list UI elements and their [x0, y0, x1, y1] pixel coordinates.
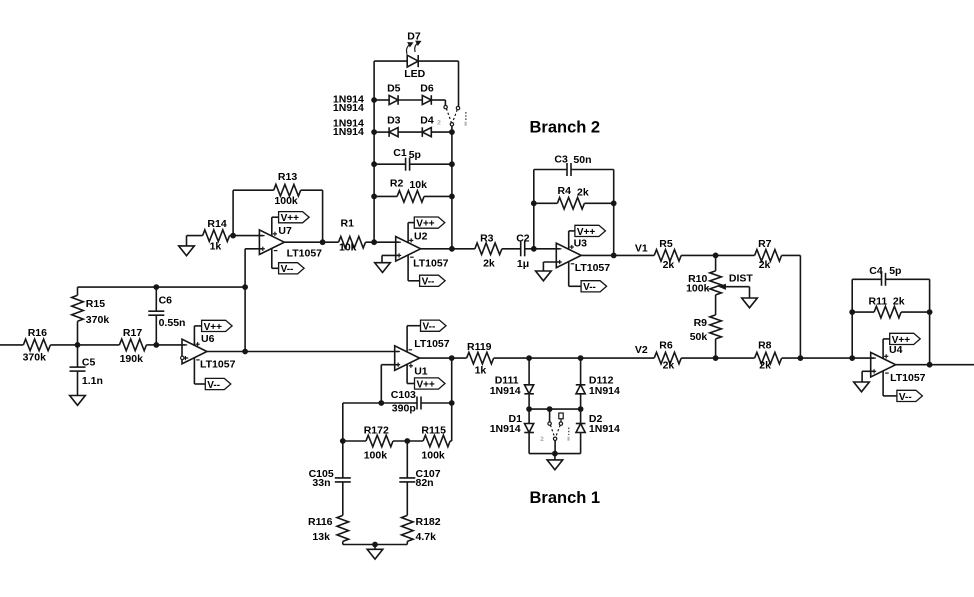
svg-text:2k: 2k — [663, 259, 675, 271]
wire U3 feedback right rail — [613, 170, 615, 256]
svg-text:R2: R2 — [390, 177, 404, 189]
svg-text:U2: U2 — [414, 231, 428, 243]
svg-text:82n: 82n — [416, 477, 434, 489]
ground at R14 — [179, 236, 203, 256]
svg-text:1N914: 1N914 — [490, 385, 521, 397]
wire R119 to V2 row / node V2 — [494, 344, 655, 358]
node R13/output — [320, 240, 325, 245]
wire U1 output — [420, 357, 467, 359]
svg-text:V++: V++ — [417, 379, 436, 390]
svg-text:R9: R9 — [694, 317, 708, 329]
resistor R172 — [343, 425, 393, 462]
svg-text:R7: R7 — [758, 238, 772, 250]
power pin V++ of U1 — [407, 364, 414, 383]
svg-text:U7: U7 — [278, 225, 292, 237]
ground of branch1 — [547, 454, 563, 470]
flag V++ U3 — [575, 225, 606, 238]
svg-text:D4: D4 — [420, 115, 434, 127]
power pin V-- of U2 — [408, 255, 420, 281]
wire R13 feedback right — [301, 190, 323, 242]
wire stack left rail — [373, 61, 375, 242]
svg-text:U3: U3 — [574, 238, 588, 250]
power pin V++ of U4 — [883, 339, 890, 359]
power pin V++ of U7 — [272, 217, 279, 236]
wire filter bottom row — [343, 544, 408, 546]
op-amp U3 — [556, 238, 610, 274]
resistor R9 — [690, 315, 722, 343]
svg-text:100k: 100k — [274, 195, 298, 207]
diode D4 — [420, 115, 434, 137]
wire U4 output to right edge — [896, 364, 974, 366]
label Branch 1 — [530, 489, 601, 507]
svg-text:5p: 5p — [409, 149, 421, 161]
wire R1 to U2 -in — [366, 241, 400, 243]
svg-text:1N914: 1N914 — [333, 102, 364, 114]
svg-text:C2: C2 — [516, 232, 530, 244]
svg-text:2k: 2k — [893, 295, 905, 307]
resistor R115 — [421, 425, 451, 462]
svg-text:370k: 370k — [23, 352, 47, 364]
ground under C5 — [70, 396, 86, 406]
svg-text:R17: R17 — [123, 327, 142, 339]
svg-text:V--: V-- — [207, 380, 220, 391]
svg-text:V++: V++ — [204, 322, 223, 333]
wire branch1 bottom row — [529, 453, 581, 455]
wire LED row right — [416, 61, 458, 106]
node R11 left — [850, 310, 855, 315]
svg-text:C6: C6 — [159, 295, 173, 307]
svg-text:LT1057: LT1057 — [413, 258, 449, 270]
flag V-- U4 — [897, 390, 923, 403]
node R2 left — [372, 194, 377, 199]
wire V2 row to U4 — [681, 357, 754, 359]
flag V++ U1 — [415, 378, 446, 391]
svg-text:2: 2 — [540, 436, 544, 443]
diode D1 — [490, 409, 534, 454]
svg-text:LT1057: LT1057 — [287, 248, 323, 260]
svg-text:R11: R11 — [869, 295, 888, 307]
flag V++ U2 — [414, 217, 445, 230]
resistor R15 — [72, 287, 110, 345]
op-amp U2 — [396, 231, 449, 270]
node middle row right — [578, 407, 583, 412]
svg-text:100k: 100k — [364, 450, 388, 462]
diode D7 LED — [404, 30, 425, 80]
resistor R119 — [467, 341, 494, 377]
svg-text:1μ: 1μ — [517, 258, 529, 270]
svg-text:D5: D5 — [387, 83, 401, 95]
svg-text:R115: R115 — [421, 425, 446, 437]
svg-text:2k: 2k — [663, 360, 675, 372]
node R172 left — [340, 439, 345, 444]
svg-text:1.1n: 1.1n — [82, 375, 103, 387]
wire R7 right down — [782, 255, 801, 358]
svg-text:V++: V++ — [281, 213, 300, 224]
ground at U2 +in — [375, 255, 400, 272]
resistor R2 — [374, 177, 452, 202]
node C4 rail bottom — [850, 356, 855, 361]
svg-text:V--: V-- — [281, 264, 294, 275]
node C103 right rail — [449, 401, 454, 406]
svg-text:R16: R16 — [28, 327, 47, 339]
resistor R1 — [339, 217, 366, 253]
node V2/R9 — [713, 356, 718, 361]
svg-text:2: 2 — [437, 120, 441, 127]
svg-text:190k: 190k — [120, 353, 144, 365]
diode D112 — [576, 358, 620, 409]
node C2/U3 feedback — [531, 246, 536, 251]
diode D5 — [387, 83, 401, 105]
resistor R13 — [274, 171, 301, 207]
svg-text:1N914: 1N914 — [490, 423, 521, 435]
node U4 output rail — [927, 362, 932, 367]
wire D3 to D4 — [398, 131, 422, 133]
power pin V++ of U3 — [569, 231, 575, 249]
svg-text:1N914: 1N914 — [589, 423, 620, 435]
wire U1 +in to C103 row — [381, 365, 399, 403]
node middle row switch — [547, 407, 552, 412]
node switch pole row — [450, 130, 455, 135]
node D112 top — [578, 356, 583, 361]
svg-text:▮: ▮ — [464, 121, 467, 127]
wire R16 to R15 node — [50, 344, 77, 346]
svg-text:U1: U1 — [414, 366, 428, 378]
svg-text:2k: 2k — [759, 259, 771, 271]
LED arrows of D7 — [407, 41, 421, 54]
node middle row left — [527, 407, 532, 412]
label 1N914 pair for D3 D4 — [333, 118, 364, 138]
resistor R116 — [308, 515, 349, 544]
svg-text:V2: V2 — [635, 344, 648, 356]
svg-text:LED: LED — [404, 68, 425, 80]
wire switch pole to D3/D4 row — [451, 126, 453, 132]
node R13/R14/U7 — [231, 233, 236, 238]
wire branch1 middle row — [529, 408, 581, 410]
svg-text:2k: 2k — [759, 360, 771, 372]
svg-text:R14: R14 — [207, 218, 226, 230]
svg-text:5p: 5p — [889, 265, 901, 277]
capacitor C103 — [343, 389, 452, 414]
svg-text:U6: U6 — [201, 333, 215, 345]
flag V++ U7 — [279, 212, 310, 225]
wire R172 to R115 — [393, 440, 423, 442]
flag V-- U1 — [421, 320, 447, 333]
op-amp U7 — [259, 225, 322, 260]
node D111 top — [527, 356, 532, 361]
svg-text:100k: 100k — [686, 282, 710, 294]
wire R9 to V2 row — [715, 339, 717, 358]
flag V-- U7 — [279, 263, 305, 276]
resistor R8 — [755, 340, 782, 372]
resistor R7 — [755, 238, 782, 271]
svg-text:V++: V++ — [416, 219, 435, 230]
node R11 right — [927, 310, 932, 315]
svg-text:U4: U4 — [889, 344, 903, 356]
node R7/R8 join — [798, 356, 803, 361]
wire U3 feedback left rail — [533, 170, 535, 249]
svg-text:R13: R13 — [278, 171, 297, 183]
power pin V-- of U6 — [194, 358, 205, 384]
wire R17 to C6 node — [146, 344, 156, 346]
svg-text:D7: D7 — [407, 30, 421, 42]
label Branch 2 — [530, 118, 601, 136]
resistor R17 — [119, 327, 146, 365]
svg-text:V--: V-- — [583, 282, 596, 293]
diode D6 — [420, 83, 434, 105]
wire node to R7 — [716, 254, 755, 256]
node U1 out rail — [449, 356, 454, 361]
power pin V++ of U2 — [408, 223, 414, 243]
svg-text:13k: 13k — [312, 531, 330, 543]
node C6 bottom — [154, 343, 159, 348]
resistor R6 — [654, 340, 681, 372]
svg-text:370k: 370k — [86, 314, 110, 326]
resistor R14 — [203, 218, 230, 253]
wire C4/R11 right rail — [929, 279, 931, 364]
node filter ground — [373, 542, 378, 547]
svg-text:50k: 50k — [690, 331, 708, 343]
wire input net at left edge — [0, 344, 23, 346]
switch S1 (branch 1) — [540, 409, 570, 443]
svg-text:C103: C103 — [391, 389, 416, 401]
svg-text:V++: V++ — [892, 335, 911, 346]
node R4 right — [611, 201, 616, 206]
node C1 left — [372, 162, 377, 167]
svg-text:1N914: 1N914 — [333, 126, 364, 138]
svg-text:R8: R8 — [758, 340, 772, 352]
node on U6 output bus — [243, 349, 248, 354]
power pin V-- of U1 — [407, 326, 420, 352]
svg-text:LT1057: LT1057 — [575, 262, 611, 274]
svg-text:Branch 2: Branch 2 — [530, 118, 601, 136]
node R2 right — [450, 194, 455, 199]
flag V-- U3 — [581, 281, 607, 294]
wire R8 to U4 input — [782, 357, 875, 359]
wire stack right rail — [451, 132, 453, 249]
svg-text:C1: C1 — [393, 147, 407, 159]
wire C6 node to U6 +in — [156, 344, 185, 346]
node U2 output rail — [450, 246, 455, 251]
svg-text:R119: R119 — [467, 341, 492, 353]
wire U1 right rail — [451, 358, 453, 441]
wire U3 output / node V1 — [581, 242, 654, 255]
wire switch pole to bottom row — [554, 441, 556, 454]
capacitor C107 — [399, 441, 440, 515]
capacitor C6 — [148, 287, 185, 345]
node V1/R10 — [713, 253, 718, 258]
node bottom row ground — [553, 451, 558, 456]
node R15/C5 — [75, 343, 80, 348]
svg-text:D6: D6 — [420, 83, 434, 95]
svg-text:R6: R6 — [659, 340, 673, 352]
svg-text:0.55n: 0.55n — [159, 317, 186, 329]
capacitor C105 — [309, 441, 351, 515]
svg-text:LT1057: LT1057 — [890, 372, 926, 384]
svg-text:DIST: DIST — [729, 273, 754, 285]
label 1N914 pair for D5 D6 — [333, 94, 364, 115]
power pin V-- of U3 — [569, 262, 581, 287]
svg-text:R4: R4 — [558, 185, 572, 197]
flag V++ U6 — [202, 320, 233, 333]
svg-text:2k: 2k — [577, 187, 589, 199]
svg-text:D3: D3 — [387, 115, 401, 127]
wire D3 row left — [374, 131, 389, 133]
diode D111 — [490, 358, 534, 409]
resistor R182 — [402, 515, 441, 544]
svg-text:C5: C5 — [82, 357, 96, 369]
svg-text:390p: 390p — [392, 402, 416, 414]
node R4 left — [531, 201, 536, 206]
resistor R11 — [852, 295, 929, 318]
wire C2 node to U3 -in — [534, 248, 560, 250]
node C103/U1 +in — [379, 401, 384, 406]
wire D5 row left — [374, 99, 389, 101]
ground at R10 wiper — [742, 298, 758, 308]
svg-text:V--: V-- — [422, 277, 435, 288]
capacitor C2 — [502, 232, 534, 270]
resistor R4 — [534, 185, 614, 209]
node stack left rail bottom — [372, 240, 377, 245]
wire U6 output bus — [207, 351, 399, 353]
svg-text:1k: 1k — [210, 241, 222, 253]
capacitor C3 — [534, 153, 614, 176]
wire D6 to switch throw — [431, 100, 445, 105]
svg-text:V--: V-- — [899, 392, 912, 403]
wire R13 feedback left — [233, 190, 274, 235]
wire R14 to U7 -in — [230, 235, 263, 237]
wiper arrow of R10 with DIST — [720, 273, 754, 298]
svg-text:1N914: 1N914 — [589, 385, 620, 397]
svg-text:10k: 10k — [339, 242, 357, 254]
svg-text:1k: 1k — [475, 365, 487, 377]
wire feedback top net — [78, 286, 246, 288]
svg-text:R3: R3 — [480, 232, 494, 244]
resistor R5 — [654, 238, 681, 271]
svg-text:LT1057: LT1057 — [414, 338, 450, 350]
capacitor C5 — [70, 345, 103, 396]
node R172/R115/C107 — [405, 439, 410, 444]
wire LED row left — [374, 60, 407, 62]
diode D2 — [576, 409, 620, 454]
diode D3 — [387, 115, 401, 137]
node feedback/U7 branch — [243, 285, 248, 290]
wire C4/R11 left rail — [851, 279, 853, 358]
wire D4 to switch node — [431, 131, 452, 133]
power pin V++ of U6 — [194, 326, 201, 345]
svg-text:4.7k: 4.7k — [416, 531, 437, 543]
capacitor C4 — [852, 265, 929, 286]
svg-text:50n: 50n — [573, 154, 591, 166]
svg-text:R5: R5 — [659, 238, 673, 250]
resistor R16 — [23, 327, 51, 363]
node D5 row left — [372, 98, 377, 103]
power pin V-- of U7 — [272, 248, 279, 268]
capacitor C1 — [374, 147, 452, 171]
svg-text:Branch 1: Branch 1 — [530, 489, 601, 507]
wire node to R17 — [78, 344, 120, 346]
resistor R3 — [475, 232, 502, 269]
wire R5 to center node — [681, 254, 715, 256]
op-amp U1 — [395, 338, 450, 378]
svg-text:C4: C4 — [869, 265, 883, 277]
flag V-- U6 — [205, 378, 231, 391]
svg-text:R15: R15 — [86, 298, 105, 310]
node U3 out rail — [611, 253, 616, 258]
svg-text:R182: R182 — [416, 516, 441, 528]
svg-text:▮: ▮ — [567, 436, 570, 442]
power pin V-- of U4 — [883, 371, 897, 396]
svg-text:10k: 10k — [409, 179, 427, 191]
ground at U4 +in — [854, 371, 875, 392]
node D3 row left — [372, 130, 377, 135]
ground at U3 +in — [536, 262, 560, 281]
op-amp U4 — [871, 344, 926, 384]
svg-text:V1: V1 — [635, 242, 648, 254]
svg-text:2k: 2k — [483, 257, 495, 269]
potentiometer R10 — [686, 255, 721, 315]
svg-text:100k: 100k — [421, 450, 445, 462]
svg-text:V--: V-- — [423, 322, 436, 333]
flag V-- U2 — [420, 275, 446, 288]
wire U7 +in down to U6 output bus — [245, 249, 263, 352]
node C6 top — [154, 285, 159, 290]
wire filter left column top — [342, 403, 344, 441]
svg-text:V++: V++ — [577, 227, 596, 238]
wire U7 output — [284, 241, 338, 243]
svg-text:R172: R172 — [364, 425, 389, 437]
svg-text:C3: C3 — [554, 153, 568, 165]
switch S2 (branch 2) — [437, 105, 467, 127]
svg-text:R116: R116 — [308, 516, 333, 528]
svg-text:33n: 33n — [312, 477, 330, 489]
flag V++ U4 — [890, 333, 921, 346]
node C1 right — [450, 162, 455, 167]
svg-text:R1: R1 — [341, 217, 355, 229]
wire U2 output — [421, 248, 475, 250]
ground of filter — [367, 545, 383, 560]
op-amp U6 — [181, 333, 236, 370]
svg-text:LT1057: LT1057 — [200, 358, 236, 370]
wire D5 to D6 — [398, 99, 422, 101]
